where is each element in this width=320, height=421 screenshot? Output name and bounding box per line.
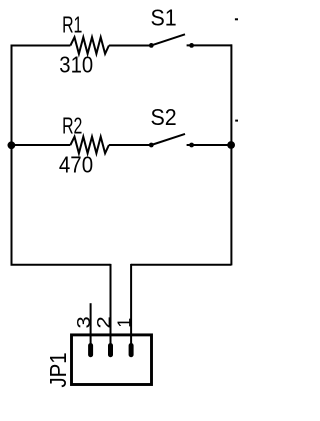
wire: row1 R1 to S1 <box>109 45 151 47</box>
S1 left contact dot <box>149 43 154 48</box>
wire: row2 R2 to S2 <box>109 144 151 146</box>
wire: left vertical bus <box>11 46 13 266</box>
wire: row1 left horizontal to R1 <box>11 45 71 47</box>
svg-text:1: 1 <box>114 318 134 328</box>
junction node right <box>227 141 235 149</box>
wire: pin 3 stub <box>90 303 92 344</box>
pin 3 pad <box>88 346 93 355</box>
switch S1 <box>149 34 194 48</box>
resistor R2 <box>70 137 109 154</box>
resistor R1 <box>70 37 109 54</box>
S1 blade <box>151 34 185 45</box>
wire: drop to pin 2 <box>110 264 112 344</box>
wire: row1 S1 to right bus <box>187 44 232 46</box>
svg-text:310: 310 <box>59 52 93 78</box>
svg-text:3: 3 <box>74 316 94 328</box>
wire: row2 S2 to right bus <box>187 144 232 146</box>
svg-text:JP1: JP1 <box>45 352 71 387</box>
S1 right contact dot <box>189 43 194 48</box>
wire: bottom left horizontal <box>11 264 111 266</box>
S2 left contact dot <box>149 143 154 148</box>
svg-text:R2: R2 <box>62 113 82 139</box>
svg-text:470: 470 <box>59 152 93 178</box>
connector JP1 box <box>72 335 152 385</box>
wire: right vertical bus <box>230 44 232 265</box>
pin 1 pad <box>129 346 134 355</box>
wire: cropped stub top right <box>235 18 238 20</box>
wire: cropped stub right edge <box>235 120 238 122</box>
svg-text:S1: S1 <box>151 5 177 31</box>
S2 right contact dot <box>189 143 194 148</box>
svg-text:2: 2 <box>94 316 114 328</box>
svg-text:R1: R1 <box>62 12 82 38</box>
S2 blade <box>151 134 185 145</box>
junction node left <box>7 141 15 149</box>
svg-text:S2: S2 <box>151 104 177 130</box>
wire: drop to pin 1 <box>130 264 132 344</box>
switch S2 <box>149 134 194 148</box>
wire: row2 left horizontal to R2 <box>11 144 71 146</box>
pin 2 pad <box>108 346 113 355</box>
wire: bottom right horizontal <box>131 264 231 266</box>
